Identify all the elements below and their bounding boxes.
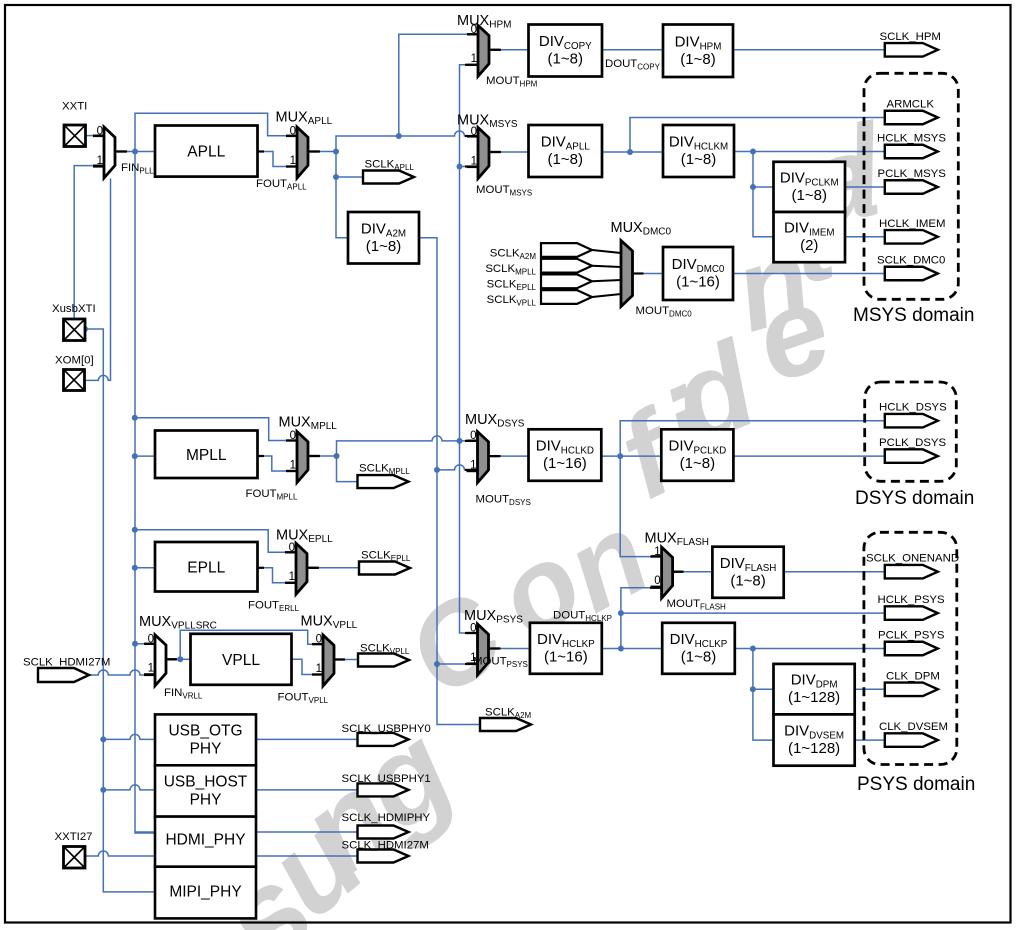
block PLL APLL	[155, 126, 258, 177]
mux MUX_VPLLSRC	[144, 635, 177, 686]
wire FIN_VPLL to VPLL	[177, 658, 191, 660]
svg-text:0: 0	[148, 633, 154, 645]
svg-text:PCLK_MSYS: PCLK_MSYS	[878, 168, 947, 180]
block divider DIV_DPM	[774, 664, 855, 715]
junction HCLK_MSYS tap	[750, 149, 756, 155]
svg-text:EPLL: EPLL	[187, 559, 225, 576]
port HCLK_MSYS	[885, 145, 938, 159]
port ARMCLK	[885, 111, 938, 125]
junction SCLK_APLL tap	[333, 149, 339, 155]
svg-text:(1~16): (1~16)	[676, 274, 720, 291]
svg-text:0: 0	[316, 634, 322, 646]
wire FIN net branch to MUX_VPLLSRC input 0	[135, 643, 144, 645]
svg-text:1: 1	[316, 663, 322, 675]
svg-text:XXTI: XXTI	[62, 101, 87, 113]
wire DOUT_HCLKP branch down	[620, 613, 622, 648]
port SCLK_VPLL	[358, 654, 409, 667]
wire PCLK_DSYS net	[733, 455, 884, 457]
svg-text:MSYS domain: MSYS domain	[853, 305, 974, 326]
block divider DIV_HCLKP_16	[530, 623, 602, 674]
wire ARMCLK net	[630, 118, 885, 153]
svg-text:USB_OTG: USB_OTG	[168, 723, 242, 740]
wire PCLK_PSYS net	[735, 648, 885, 650]
svg-text:(1~128): (1~128)	[788, 740, 840, 757]
svg-text:CLK_DVSEM: CLK_DVSEM	[879, 721, 948, 733]
mux MUX_PSYS	[467, 624, 500, 675]
port SCLK_ONENAND	[885, 565, 938, 579]
wire DOUT_HCLKP branch to MUX_FLASH input 0	[621, 588, 650, 613]
svg-text:SCLK_ONENAND: SCLK_ONENAND	[866, 553, 959, 565]
wire SCLK_MPLL branch to port	[337, 456, 358, 482]
block divider DIV_COPY	[529, 25, 603, 77]
mux MUX_MPLL	[286, 432, 319, 483]
svg-text:HCLK_PSYS: HCLK_PSYS	[878, 594, 946, 606]
junction FIN tap MPLL in	[132, 453, 138, 459]
svg-text:XusbXTI: XusbXTI	[52, 303, 96, 315]
block divider DIV_DMC0	[663, 247, 733, 300]
port SCLK_APLL	[363, 171, 414, 184]
svg-text:HCLK_IMEM: HCLK_IMEM	[879, 218, 945, 230]
mux MUX_APLL	[286, 127, 319, 178]
wire MOUT_DMC0 to DIV_DMC0	[644, 273, 664, 275]
wire FIN_VPLL bypass to MUX_VPLL input 0	[180, 630, 312, 659]
junction FIN tap EPLL mux	[132, 527, 138, 533]
wire FIN net: mux out to APLL input	[127, 151, 155, 153]
wire FIN branch into HDMI_PHY	[135, 831, 155, 833]
wire HCLK_MSYS branch to DIV_PCLKM	[753, 186, 774, 188]
wire MOUT_DSYS to DIV_HCLKD	[501, 455, 529, 457]
svg-text:1: 1	[471, 53, 477, 65]
wire XXTI27 to HDMI_PHY	[85, 851, 155, 856]
wire CLK_DPM net	[855, 688, 885, 690]
svg-text:APLL: APLL	[187, 144, 225, 161]
svg-text:(1~8): (1~8)	[548, 151, 583, 168]
wire HCLK_DSYS branch to MUX_FLASH input 1	[620, 456, 650, 556]
junction FIN tap VPLLSRC mux	[132, 641, 138, 647]
wire SCLK_HPM net	[733, 49, 885, 51]
junction DOUT_HCLKP tap2	[618, 646, 624, 652]
wire FOUT_EPLL to MUX_EPLL input 1	[264, 568, 285, 583]
svg-text:XOM[0]: XOM[0]	[55, 355, 94, 367]
svg-text:MIPI_PHY: MIPI_PHY	[169, 884, 241, 901]
port SCLK_VPLL dmc input	[541, 290, 592, 304]
block PHY MIPI	[155, 867, 256, 919]
junction PCLK_PSYS tap	[750, 646, 756, 652]
block divider DIV_HCLKD	[529, 429, 602, 481]
svg-text:SCLK_USBPHY1: SCLK_USBPHY1	[342, 773, 431, 785]
pad XOM[0]	[64, 370, 85, 391]
svg-text:1: 1	[290, 155, 296, 167]
port SCLK_EPLL dmc input	[541, 274, 592, 288]
wire FIN net vertical bus down left side	[135, 152, 155, 834]
wire SCLK_HDMIPHY net	[256, 831, 357, 833]
domain box PSYS domain	[864, 532, 957, 764]
svg-text:SCLK_HDMIPHY: SCLK_HDMIPHY	[342, 812, 431, 824]
svg-text:0: 0	[290, 430, 296, 442]
svg-text:1: 1	[470, 459, 476, 471]
wire MOUT_FLASH to DIV_FLASH	[683, 571, 713, 573]
block divider DIV_HCLKP_8	[662, 623, 735, 674]
junction ARMCLK tap	[627, 149, 633, 155]
wire SCLK_ONENAND net	[784, 571, 885, 573]
wire XXTI to FIN mux input 0	[86, 135, 94, 137]
wire FIN net branch to MPLL input	[135, 455, 155, 457]
svg-text:MPLL: MPLL	[186, 447, 227, 464]
wire SCLK_MPLL net: mux out to MUX_DSYS input 0	[320, 436, 465, 456]
port PCLK_PSYS	[885, 642, 938, 656]
junction HCLK_DSYS tap	[617, 453, 623, 459]
wire SCLK_HDMI27M input to MUX_VPLLSRC input 1	[89, 670, 144, 675]
svg-text:VPLL: VPLL	[222, 652, 260, 669]
block divider DIV_HCLKM	[663, 125, 734, 177]
svg-text:(1~16): (1~16)	[543, 455, 587, 472]
junction SCLK_APLL tap2	[333, 174, 339, 180]
mux MUX_VPLL	[312, 635, 345, 686]
wire SCLK_A2M branch MUX_DSYS input 1	[437, 465, 465, 470]
block PHY USB_HOST	[155, 765, 256, 816]
mux MUX_MSYS	[467, 128, 500, 179]
wire DOUT_APLL to DIV_HCLKM	[602, 151, 663, 153]
mux MUX_HPM	[467, 25, 500, 76]
svg-text:HCLK_MSYS: HCLK_MSYS	[877, 133, 946, 145]
svg-text:ARMCLK: ARMCLK	[887, 99, 935, 111]
wire DOUT_HCLKP between dividers	[602, 648, 662, 650]
block divider DIV_APLL	[529, 125, 603, 177]
junction DOUT_HCLKP tap	[618, 610, 624, 616]
port HCLK_IMEM	[885, 230, 938, 244]
junction SCLK_A2M tap DSYS	[434, 467, 440, 473]
svg-text:SCLK_DMC0: SCLK_DMC0	[877, 255, 945, 267]
junction SCLK_A2M tap PSYS	[434, 661, 440, 667]
wire DOUT_COPY to DIV_HPM	[602, 49, 663, 51]
junction XusbXTI tap USB_OTG	[100, 736, 106, 742]
block PLL EPLL	[155, 542, 258, 592]
wire FIN net bypass to MUX_APLL input 0	[135, 113, 286, 151]
svg-text:(2): (2)	[800, 237, 818, 254]
wire SCLK_MPLL branch MUX_MSYS input 1	[460, 166, 466, 168]
svg-text:1: 1	[97, 155, 103, 167]
block PLL MPLL	[155, 431, 258, 479]
wire HCLK_IMEM net	[845, 236, 885, 238]
wire FIN net branch to EPLL input	[135, 567, 155, 569]
svg-text:(1~8): (1~8)	[792, 187, 827, 204]
junction FIN tap EPLL in	[132, 565, 138, 571]
junction XusbXTI tap USB_HOST	[100, 787, 106, 793]
wire PCLK_MSYS net	[845, 186, 885, 188]
port SCLK_MPLL dmc input	[541, 259, 592, 273]
wire SCLK_USBPHY0 net	[256, 738, 357, 740]
wire SCLK_A2M branch MUX_PSYS input 1	[437, 663, 465, 665]
wire XusbXTI branch to USB_OTG PHY	[103, 734, 155, 739]
port CLK_DPM	[885, 683, 938, 697]
svg-text:1: 1	[148, 663, 154, 675]
svg-text:XXTI27: XXTI27	[55, 831, 93, 843]
mux MUX_DSYS	[467, 432, 500, 483]
wire SCLK_USBPHY1 net	[256, 789, 357, 791]
block divider DIV_DVSEM	[774, 714, 855, 765]
block divider DIV_PCLKD	[661, 429, 733, 481]
block PLL VPLL	[191, 634, 292, 685]
port SCLK_A2M	[480, 718, 531, 731]
wire HCLK_DSYS to port	[620, 421, 885, 456]
block divider DIV_A2M	[348, 212, 419, 264]
svg-text:(1~128): (1~128)	[788, 689, 840, 706]
svg-text:SCLK_USBPHY0: SCLK_USBPHY0	[342, 723, 431, 735]
port SCLK_USBPHY1	[358, 783, 409, 796]
domain box MSYS domain	[864, 73, 958, 299]
svg-text:USB_HOST: USB_HOST	[164, 774, 248, 791]
wire SCLK_DMC0 net	[733, 273, 885, 275]
block divider DIV_PCLKM	[774, 162, 846, 212]
wire SCLK_EPLL net	[319, 567, 359, 569]
svg-text:1: 1	[654, 546, 660, 558]
mux MUX_DMC0	[621, 241, 633, 307]
junction FIN_VPLL tap	[177, 656, 183, 662]
svg-text:SCLK_HDMI27M: SCLK_HDMI27M	[342, 840, 429, 852]
block PHY HDMI	[155, 817, 256, 867]
svg-text:1: 1	[289, 571, 295, 583]
mux MUX_EPLL	[285, 543, 318, 594]
wire PCLK_PSYS branch down	[753, 649, 774, 741]
block divider DIV_FLASH	[712, 547, 783, 598]
port CLK_DVSEM	[885, 733, 938, 747]
wire HCLK_DSYS net	[601, 455, 661, 457]
wire CLK_DVSEM net	[855, 739, 885, 741]
watermark Samsung Confidential	[193, 99, 893, 930]
port SCLK_USBPHY0	[358, 733, 409, 746]
svg-text:PSYS domain: PSYS domain	[857, 774, 975, 795]
svg-text:PCLK_DSYS: PCLK_DSYS	[879, 437, 947, 449]
wire FOUT_MPLL to MUX_MPLL input 1	[264, 456, 286, 471]
svg-text:HCLK_DSYS: HCLK_DSYS	[879, 402, 947, 414]
wire FIN net branch to MUX_EPLL input 0	[135, 530, 285, 553]
port HCLK_PSYS	[885, 606, 938, 620]
wire SCLK_VPLL net	[344, 659, 358, 661]
mux FIN_PLL source mux	[93, 127, 126, 178]
junction PCLK_PSYS tap2	[750, 686, 756, 692]
svg-text:PCLK_PSYS: PCLK_PSYS	[878, 630, 945, 642]
junction SCLK_MPLL bus join	[457, 438, 463, 444]
wire FIN net branch to MUX_MPLL input 0	[135, 418, 286, 441]
svg-text:DSYS domain: DSYS domain	[855, 488, 974, 509]
svg-text:0: 0	[289, 542, 295, 554]
wire SCLK_HDMI27M output net	[256, 855, 357, 857]
svg-text:0: 0	[290, 126, 296, 138]
wire XOM[0] to FIN mux select	[85, 179, 111, 381]
svg-text:SCLK_HPM: SCLK_HPM	[880, 31, 941, 43]
junction SCLK_APLL tap to MUX_HPM	[396, 133, 402, 139]
pad XusbXTI	[64, 319, 86, 341]
svg-text:PHY: PHY	[190, 741, 222, 758]
domain box DSYS domain	[865, 382, 957, 481]
block divider DIV_HPM	[663, 25, 733, 78]
svg-text:(1~8): (1~8)	[680, 455, 715, 472]
svg-text:0: 0	[470, 430, 476, 442]
junction FIN tap MPLL mux	[132, 415, 138, 421]
svg-text:PHY: PHY	[190, 792, 222, 809]
svg-text:(1~8): (1~8)	[680, 51, 715, 68]
wire HCLK_MSYS branch down	[753, 152, 774, 237]
wire HCLK_MSYS net	[734, 151, 885, 153]
svg-text:(1~16): (1~16)	[544, 648, 588, 665]
wire SCLK_MPLL bus MUX_HPM.1 to MUX_PSYS.0	[460, 65, 466, 633]
svg-text:(1~8): (1~8)	[681, 151, 716, 168]
junction SCLK_MPLL tap out	[334, 453, 340, 459]
wire XusbXTI branch to USB_HOST PHY	[103, 785, 155, 790]
wire MOUT_MSYS to DIV_APLL	[501, 151, 529, 153]
block PHY USB_OTG	[155, 714, 256, 765]
svg-text:(1~8): (1~8)	[730, 572, 765, 589]
port SCLK_HPM	[885, 43, 938, 57]
wire MOUT_HPM to DIV_COPY	[501, 49, 529, 51]
block divider DIV_IMEM	[774, 212, 846, 262]
wire MUX_DMC0 input stubs	[592, 250, 621, 253]
wire SCLK_A2M net bus	[419, 238, 480, 725]
junction XusbXTI tap at pad	[82, 326, 88, 332]
svg-text:SCLK_HDMI27M: SCLK_HDMI27M	[23, 657, 110, 669]
svg-text:CLK_DPM: CLK_DPM	[886, 670, 940, 682]
junction SCLK_MPLL tap MSYS	[457, 164, 463, 170]
svg-text:(1~8): (1~8)	[366, 238, 401, 255]
wire SCLK_APLL branch to DIV_A2M	[336, 177, 348, 238]
port PCLK_DSYS	[885, 449, 938, 463]
port SCLK_HDMI27M in	[38, 668, 89, 682]
wire SCLK_APLL net: MUX_APLL out to MUX_MSYS input 0	[320, 131, 465, 152]
port SCLK_EPLL	[359, 562, 410, 575]
svg-text:(1~8): (1~8)	[548, 51, 583, 68]
wire PCLK_PSYS branch to DIV_DPM	[753, 688, 774, 690]
wire XusbXTI to FIN mux input 1	[74, 166, 93, 320]
mux MUX_FLASH	[651, 547, 684, 598]
svg-text:0: 0	[470, 623, 476, 635]
wire XusbXTI net vertical bus to PHYs	[85, 329, 155, 892]
port SCLK_A2M dmc input	[541, 243, 592, 257]
port SCLK_HDMI27M out	[358, 850, 409, 863]
svg-text:HDMI_PHY: HDMI_PHY	[165, 832, 245, 849]
wire SCLK_APLL branch up to MUX_HPM input 0	[399, 34, 467, 136]
pad XXTI	[64, 125, 86, 147]
junction HCLK_MSYS tap2	[750, 184, 756, 190]
wire DOUT_HCLKP net to HCLK_PSYS port	[621, 612, 885, 614]
svg-text:0: 0	[654, 575, 660, 587]
wire FOUT_VPLL to MUX_VPLL input 1	[292, 659, 312, 674]
port HCLK_DSYS	[885, 414, 938, 428]
port SCLK_HDMIPHY	[358, 826, 409, 839]
port PCLK_MSYS	[885, 180, 938, 194]
svg-text:(1~8): (1~8)	[681, 648, 716, 665]
wire MOUT_PSYS to DIV_HCLKP	[501, 648, 530, 650]
svg-text:1: 1	[290, 459, 296, 471]
port SCLK_MPLL	[358, 475, 409, 488]
svg-text:0: 0	[97, 126, 103, 138]
port SCLK_DMC0	[885, 267, 938, 281]
pad XXTI27	[64, 847, 86, 869]
junction FIN tap at mux out	[132, 149, 138, 155]
wire SCLK_APLL branch to output port	[336, 152, 363, 178]
svg-text:1: 1	[471, 155, 477, 167]
wire FOUT_APLL to MUX_APLL input 1	[264, 152, 286, 167]
